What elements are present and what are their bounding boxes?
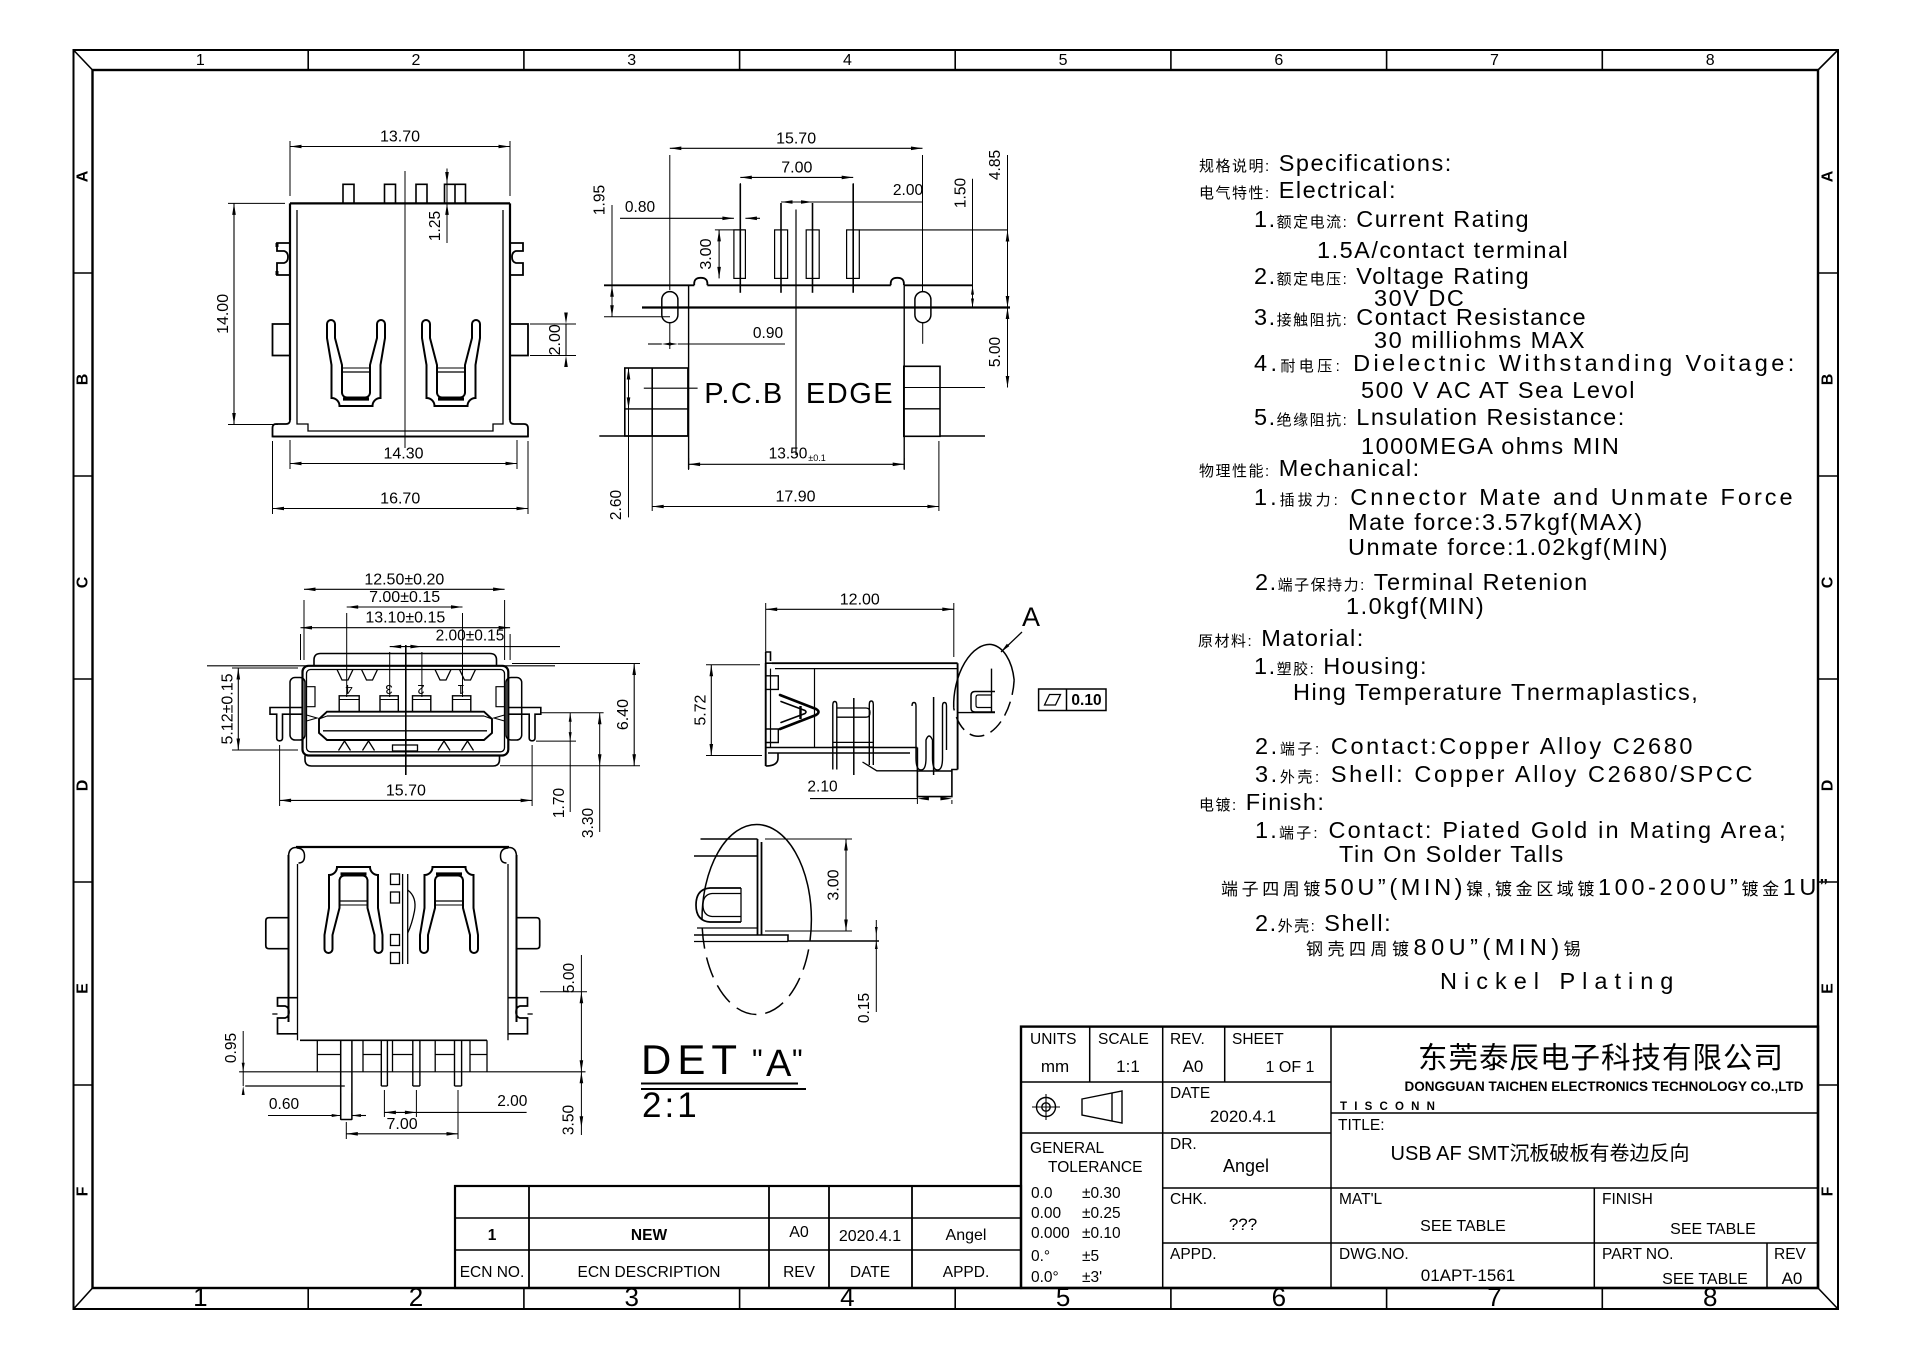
svg-text:DONGGUAN TAICHEN ELECTRONICS T: DONGGUAN TAICHEN ELECTRONICS TECHNOLOGY … [1404,1079,1803,1094]
svg-text:Mate force:3.57kgf(MAX): Mate force:3.57kgf(MAX) [1348,509,1644,535]
svg-text:P.C.B: P.C.B [704,378,784,410]
dimension 1.50 [972,179,974,308]
view 1 upper latch left [277,243,290,275]
svg-text:0.°: 0.° [1031,1248,1050,1265]
svg-text:A: A [1820,170,1837,182]
svg-text:0.90: 0.90 [753,325,784,342]
svg-text:DR.: DR. [1170,1136,1197,1153]
svg-text:mm: mm [1041,1057,1069,1076]
svg-text:B: B [75,374,92,386]
view 4 shell top edge [772,662,958,664]
dimension 1.25 [446,169,448,244]
view 1 side block left [273,324,291,356]
svg-text:3.50: 3.50 [561,1105,578,1136]
svg-text:2: 2 [412,52,421,69]
dimension 0.15 [875,920,877,1012]
view 1 spring contact left [327,320,385,406]
detail A pcb seat lines [697,927,758,929]
svg-text:2.外壳: Shell:: 2.外壳: Shell: [1255,910,1392,936]
view 2 vertical centerline [795,210,797,456]
svg-text:SEE TABLE: SEE TABLE [1670,1221,1756,1238]
svg-text:0.000: 0.000 [1031,1225,1070,1242]
svg-text:2.60: 2.60 [608,490,625,521]
detail callout leader and label A [1001,632,1022,652]
svg-text:REV: REV [783,1264,816,1281]
svg-text:2.00: 2.00 [893,182,924,199]
svg-text:5.00: 5.00 [561,963,578,994]
dimension 0.90 [648,343,662,345]
svg-text:0.95: 0.95 [223,1033,240,1063]
view 5 base block [300,1039,487,1041]
svg-text:±0.25: ±0.25 [1082,1205,1121,1222]
svg-text:2:1: 2:1 [642,1086,700,1125]
dimension 2.00 (view 2) [781,201,923,203]
view 1 front view shell body [290,202,510,204]
svg-text:B: B [1820,374,1837,386]
view 3 contact pads [339,696,359,712]
view 5 right edge [516,855,518,1022]
svg-text:5: 5 [1059,52,1068,69]
view 3 wing tab left [270,708,303,741]
svg-text:": " [792,1044,803,1077]
svg-text:15.70: 15.70 [386,782,426,799]
svg-text:E: E [1820,983,1837,994]
svg-text:1 OF 1: 1 OF 1 [1266,1059,1315,1076]
svg-text:1: 1 [457,682,464,697]
dimension 14.30 [289,440,291,469]
svg-text:REV: REV [1774,1246,1807,1263]
detail A curled edge [696,888,741,922]
view 3 top chevrons [337,670,353,681]
svg-text:5.12±0.15: 5.12±0.15 [219,673,236,744]
frame row ticks and letters [74,272,93,274]
dimension 6.40 [512,663,640,665]
view 5 pins 2-4 [380,1040,382,1086]
dimension 3.00 (detail A) [765,838,852,840]
dimension 2.00 (view 5) [383,1090,385,1117]
svg-text:C: C [1820,576,1837,588]
dimension 15.70 (view 2) [669,155,671,290]
dimension 0.60 [268,1115,341,1117]
dimension 5.00 (view 2) [1007,308,1009,388]
svg-text:0.10: 0.10 [1071,692,1101,709]
view 2 pcb top edge [642,306,1010,308]
view 2 pcb right block [904,366,940,436]
svg-text:NEW: NEW [631,1227,668,1244]
view 3 housing top cap [314,654,497,666]
view 4 partition line [814,669,816,748]
svg-text:2: 2 [417,682,424,697]
svg-text:5.00: 5.00 [987,337,1004,368]
svg-text:0.60: 0.60 [269,1096,300,1113]
view 1 top tabs [343,184,354,203]
svg-text:0.80: 0.80 [625,199,656,216]
svg-text:1.25: 1.25 [427,211,444,241]
svg-text:1: 1 [488,1227,497,1244]
svg-text:7: 7 [1490,52,1499,69]
svg-text:A: A [75,170,92,182]
svg-text:2020.4.1: 2020.4.1 [1210,1107,1276,1126]
dimension 2.60 [628,368,630,517]
view 3 centerline [405,645,407,775]
view 5 center strip and tabs [402,874,404,964]
view 5 lower latch right [508,998,528,1034]
view 5 spring contact left (inverted) [325,867,383,953]
svg-text:13.10±0.15: 13.10±0.15 [365,610,445,627]
dimension 2.00 (view 1 right block) [530,323,576,325]
svg-text:±0.30: ±0.30 [1082,1185,1121,1202]
svg-text:T I S C O N N: T I S C O N N [1340,1101,1437,1113]
dimension 3.30 [599,713,601,832]
view 3 side bulge right [506,678,522,741]
view 3 pcb line [207,665,555,667]
dimension 5.00 (view 5) [540,991,587,993]
svg-text:SEE TABLE: SEE TABLE [1420,1218,1506,1235]
svg-text:2.10: 2.10 [807,779,838,796]
view 2 shell sides [688,285,690,469]
svg-text:6: 6 [1274,52,1283,69]
svg-text:1.50: 1.50 [953,178,970,209]
title block outer border [1021,1027,1818,1288]
view 3 housing bottom cap [305,756,500,767]
svg-text:3: 3 [627,52,636,69]
svg-text:3.30: 3.30 [580,808,597,839]
dimension 7.00 (view 2) [739,183,741,213]
svg-text:13.50: 13.50 [769,446,808,463]
svg-text:±0.1: ±0.1 [808,453,825,463]
svg-text:ECN DESCRIPTION: ECN DESCRIPTION [578,1264,721,1281]
svg-text:1:1: 1:1 [1116,1057,1140,1076]
svg-text:PART NO.: PART NO. [1602,1246,1674,1263]
svg-text:DET: DET [641,1036,743,1083]
dimension 3.00 (view 2) [715,229,745,231]
svg-text:5: 5 [1056,1282,1070,1312]
view 4 latch spring D [780,695,819,729]
flatness tolerance frame 0.10 [1039,689,1106,711]
svg-text:A0: A0 [1183,1057,1204,1076]
svg-text:2.00±0.15: 2.00±0.15 [436,628,505,645]
svg-text:15.70: 15.70 [776,130,816,147]
dimension 7.00 (view 5) [345,1122,347,1139]
view 3 tongue blade [319,712,492,740]
svg-text:2.端子: Contact:Copper Alloy C: 2.端子: Contact:Copper Alloy C2680 [1255,733,1695,759]
svg-text:6.40: 6.40 [615,699,632,730]
svg-text:12.00: 12.00 [840,591,880,608]
svg-text:1.5A/contact terminal: 1.5A/contact terminal [1317,237,1569,263]
view 5 left edge [288,855,290,1022]
svg-text:Angel: Angel [1223,1156,1269,1176]
view 1 centerline [404,171,406,448]
dimension 7.00±0.15 [346,613,348,697]
detail A ellipse [702,825,811,920]
svg-text:Hing Temperature Tnermaplas: Hing Temperature Tnermaplastics, [1293,679,1699,705]
dimension 13.50 [688,458,690,470]
svg-text:Nickel Plating: Nickel Plating [1440,968,1680,994]
svg-text:DATE: DATE [1170,1085,1210,1102]
dimension 3.50 [580,1072,582,1135]
svg-text:2.00: 2.00 [497,1093,528,1110]
svg-text:1.端子: Contact: Piated Gold: 1.端子: Contact: Piated Gold in Mating Are… [1255,817,1788,843]
dimension 1.70 [541,712,604,714]
svg-text:4: 4 [843,52,852,69]
svg-text:SEE TABLE: SEE TABLE [1662,1271,1748,1288]
svg-text:DWG.NO.: DWG.NO. [1339,1246,1409,1263]
title block grid lines [1021,1081,1331,1083]
svg-text:4.85: 4.85 [987,150,1004,180]
svg-text:2: 2 [409,1282,423,1312]
dimension 0.95 [242,1031,244,1086]
svg-text:13.70: 13.70 [380,129,420,146]
dimension 13.70 [289,141,291,196]
svg-text:GENERAL: GENERAL [1030,1140,1104,1157]
dimension 2.10 [916,775,918,804]
svg-text:0.0°: 0.0° [1031,1269,1059,1286]
svg-text:F: F [75,1186,92,1196]
svg-text:3.00: 3.00 [825,869,842,900]
view 3 side bulge left [290,678,305,741]
svg-text:APPD.: APPD. [1170,1246,1217,1263]
svg-text:±0.10: ±0.10 [1082,1225,1121,1242]
svg-text:EDGE: EDGE [806,378,894,410]
dimension 5.72 [706,664,760,666]
svg-text:CHK.: CHK. [1170,1191,1207,1208]
svg-text:3: 3 [624,1282,638,1312]
svg-text:7.00±0.15: 7.00±0.15 [369,589,440,606]
view 4 middle contact [833,702,837,770]
svg-text:Tin On Solder Talls: Tin On Solder Talls [1339,841,1565,867]
svg-text:FINISH: FINISH [1602,1191,1653,1208]
frame corner chamfers [74,50,93,70]
view 3 bottom chevrons [339,741,351,751]
svg-text:0.15: 0.15 [856,993,873,1023]
view 5 shell top with curled corners [296,846,509,848]
svg-text:1: 1 [193,1282,207,1312]
view 5 spring contact right (inverted) [420,867,478,953]
dimension 14.00 [228,202,285,204]
view 1 side block right [510,324,528,356]
svg-text:东莞泰辰电子科技有限公司: 东莞泰辰电子科技有限公司 [1418,1042,1784,1075]
svg-text:3: 3 [385,682,392,697]
svg-text:2020.4.1: 2020.4.1 [839,1228,901,1245]
dimension 12.50±0.20 [303,600,305,660]
svg-text:1: 1 [196,52,205,69]
svg-text:1.0kgf(MIN): 1.0kgf(MIN) [1346,593,1485,619]
svg-text:3.外壳: Shell: Copper Alloy C: 3.外壳: Shell: Copper Alloy C2680/SPCC [1255,761,1755,787]
view 4 shell curl detail in ellipse [971,692,995,713]
svg-text:3.00: 3.00 [698,238,715,269]
svg-text:D: D [1820,780,1837,792]
dimension 4.85 [1007,155,1009,308]
view 1 spring contact right [422,320,480,406]
view 1 upper latch right [510,243,523,275]
svg-text:7.00: 7.00 [387,1116,418,1133]
svg-text:5.72: 5.72 [692,694,709,725]
view 3 shell outer [303,666,509,756]
svg-text:USB AF SMT沉板破板有卷边反向: USB AF SMT沉板破板有卷边反向 [1391,1142,1690,1165]
svg-text:7: 7 [1487,1282,1501,1312]
svg-text:1.95: 1.95 [592,185,609,215]
svg-text:0.0: 0.0 [1031,1185,1053,1202]
detail callout ellipse A [949,640,1019,740]
svg-text:A: A [1022,602,1040,632]
svg-text:TITLE:: TITLE: [1338,1117,1385,1134]
svg-text:": " [752,1044,763,1077]
svg-text:Angel: Angel [946,1227,987,1244]
svg-text:A: A [766,1043,792,1085]
svg-text:01APT-1561: 01APT-1561 [1421,1266,1516,1285]
svg-text:A0: A0 [1782,1269,1803,1288]
svg-text:17.90: 17.90 [775,489,815,506]
view 3 wing tab right [508,708,541,741]
dimension 2.00±0.15 (view 3) [389,652,391,697]
svg-text:D: D [75,780,92,792]
svg-text:TOLERANCE: TOLERANCE [1048,1159,1142,1176]
svg-text:4: 4 [840,1282,854,1312]
view 2 mounting peg ovals [662,292,678,323]
detail A shell end face [701,838,758,840]
view 4 right smt contact [912,703,947,771]
dimension 5.12±0.15 [232,667,298,669]
dimension 13.10±0.15 [300,634,302,660]
svg-text:UNITS: UNITS [1030,1031,1077,1048]
svg-text:12.50±0.20: 12.50±0.20 [364,571,444,588]
view 5 side tab left [266,918,289,949]
view 1 bottom flange [273,420,529,437]
view 5 pin 1 shield tail [340,1040,342,1119]
svg-text:500 V AC AT Sea Levol: 500 V AC AT Sea Levol [1361,377,1636,403]
svg-text:0.00: 0.00 [1031,1205,1062,1222]
svg-text:14.00: 14.00 [215,294,232,334]
svg-text:±3': ±3' [1082,1269,1102,1286]
view 5 lower latch left [278,998,298,1034]
frame column ticks and numbers [307,50,309,70]
svg-text:SHEET: SHEET [1232,1031,1284,1048]
svg-text:F: F [1820,1186,1837,1196]
view 5 side tab right [517,918,540,949]
svg-text:APPD.: APPD. [943,1264,990,1281]
svg-text:C: C [75,576,92,588]
third angle projection symbol [1037,1098,1056,1117]
svg-text:DATE: DATE [850,1264,890,1281]
ecn table grid [455,1186,1021,1288]
dimension 1.95 [604,284,688,286]
svg-text:16.70: 16.70 [380,491,420,508]
svg-text:MAT'L: MAT'L [1339,1191,1383,1208]
svg-text:Unmate force:1.02kgf(MIN): Unmate force:1.02kgf(MIN) [1348,534,1669,560]
view 2 pcb bottom edge [599,435,688,437]
svg-text:14.30: 14.30 [383,446,423,463]
view 4 bottom and foot [766,748,918,767]
svg-text:???: ??? [1229,1215,1257,1234]
svg-text:6: 6 [1272,1282,1286,1312]
view 3 bottom center slot [393,745,418,751]
svg-text:8: 8 [1706,52,1715,69]
view 5 pcb lines [239,1071,585,1073]
svg-text:2.00: 2.00 [547,324,564,355]
dimension 17.90 [651,436,653,511]
svg-text:SCALE: SCALE [1098,1031,1149,1048]
view 2 shell top edge with ears [604,278,973,286]
dimension 16.70 [272,441,274,514]
dimension 15.70 (view 3) [279,745,281,806]
view 4 left edge profile [765,663,767,766]
view 2 contact pins [734,230,746,279]
svg-text:A0: A0 [789,1224,809,1241]
dimension 12.00 [765,603,767,657]
svg-text:E: E [75,983,92,994]
svg-text:1.70: 1.70 [551,788,568,819]
svg-text:7.00: 7.00 [781,159,812,176]
svg-text:±5: ±5 [1082,1248,1099,1265]
view 2 pcb left block [625,368,688,436]
svg-text:REV.: REV. [1170,1031,1205,1048]
svg-text:ECN NO.: ECN NO. [460,1264,525,1281]
view 3 inner side flaps [307,687,316,707]
dimension 0.80 [620,217,734,219]
